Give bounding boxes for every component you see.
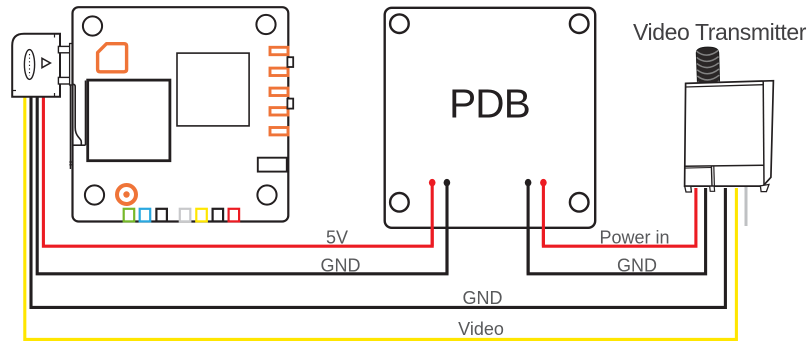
header pad 3 [270, 88, 288, 95]
VTX front-right edge [762, 81, 765, 185]
header pad 1 [270, 47, 288, 54]
lens barrel bottom cap [72, 144, 86, 146]
wire GND camera to VTX (long black) [31, 95, 725, 307]
header pad 2 [270, 68, 288, 75]
VTX foot middle [710, 186, 715, 191]
PDB hole bottom-left [390, 193, 409, 212]
plug arrow [42, 58, 50, 67]
svg-text:5V: 5V [326, 228, 348, 248]
fiducial dot [123, 191, 129, 197]
pad black 2 [213, 209, 224, 222]
orange pad (chamfered square) [98, 44, 127, 72]
plug oval dotted line [29, 54, 31, 76]
svg-text:PDB: PDB [449, 81, 530, 127]
component outline rect [258, 158, 287, 172]
plug pin 1 [58, 46, 69, 52]
camera board outline [73, 7, 289, 221]
VTX band divider [710, 166, 713, 186]
wire video (yellow, camera to VTX) [25, 95, 737, 339]
stub black right [527, 183, 530, 274]
header pad 4 [270, 108, 288, 115]
mounting hole bottom-left [85, 185, 104, 204]
plug corner tick top-right [54, 34, 56, 38]
plug pin 2 [58, 77, 69, 84]
plug oval lens [24, 50, 34, 80]
lens module [88, 80, 170, 161]
edge tab 1 [287, 57, 293, 67]
pad gray [180, 209, 191, 222]
mounting hole bottom-right [257, 185, 276, 204]
stub red right [542, 183, 545, 247]
PDB hole top-right [570, 14, 589, 33]
pad blue [140, 209, 151, 222]
VTX connector band top [684, 165, 763, 166]
lens barrel left profile [73, 84, 82, 145]
solder dot black right [525, 179, 532, 186]
wire 5V camera to PDB (red) [43, 95, 432, 246]
mounting hole top-right [256, 15, 275, 34]
solder dot red left [429, 179, 436, 186]
PDB hole top-left [390, 14, 409, 33]
svg-text:GND: GND [321, 256, 361, 276]
stub black left [445, 183, 448, 274]
antenna wire gray stub [745, 186, 748, 226]
pad yellow [196, 209, 207, 222]
edge tab 2 [287, 99, 293, 109]
pad green [124, 209, 135, 222]
svg-text:Power in: Power in [599, 228, 669, 248]
stub red left [431, 183, 434, 247]
camera plug P1 body [12, 34, 60, 97]
VTX foot right [760, 184, 769, 191]
header pad 5 [270, 128, 288, 135]
svg-text:Video Transmitter: Video Transmitter [633, 19, 807, 45]
VTX band divider 2 [713, 166, 716, 186]
board edge tick 2 [69, 164, 72, 166]
wire GND camera to PDB (black) [37, 95, 447, 274]
fiducial ring [117, 185, 136, 204]
mounting hole top-left [83, 16, 102, 35]
plug socket on board [70, 44, 73, 86]
svg-text:Video: Video [458, 319, 504, 339]
VTX antenna [696, 47, 719, 85]
VTX foot left [685, 186, 692, 192]
plug corner tick bottom-left [12, 90, 16, 92]
wire power in PDB to VTX (red) [543, 184, 696, 246]
lens barrel right edge [85, 81, 87, 146]
svg-text:GND: GND [463, 288, 503, 308]
board edge inner line [69, 84, 71, 169]
plug corner tick bottom-right [54, 93, 56, 97]
PDB hole bottom-right [570, 193, 589, 212]
solder dot red right [540, 179, 547, 186]
svg-text:GND: GND [617, 256, 657, 276]
solder dot black left [444, 179, 451, 186]
IC chip U1 [177, 53, 249, 126]
VTX band inner line left [685, 167, 712, 170]
pad black 1 [156, 209, 167, 222]
VTX top inner edge [686, 85, 764, 87]
pad red [229, 209, 240, 222]
PDB board [385, 8, 596, 228]
board edge tick 1 [69, 161, 72, 163]
VTX body [685, 81, 774, 186]
wire GND PDB to VTX (black) [528, 184, 706, 274]
